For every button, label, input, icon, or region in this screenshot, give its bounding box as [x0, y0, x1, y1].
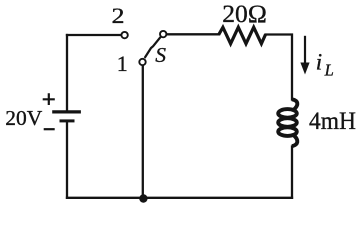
svg-text:20Ω: 20Ω [222, 1, 266, 28]
svg-text:4mH: 4mH [309, 108, 356, 135]
svg-text:S: S [155, 43, 166, 67]
svg-text:20V: 20V [5, 106, 43, 130]
svg-text:L: L [324, 60, 334, 79]
svg-text:2: 2 [112, 3, 125, 28]
svg-text:1: 1 [117, 51, 128, 76]
svg-text:i: i [316, 49, 322, 74]
